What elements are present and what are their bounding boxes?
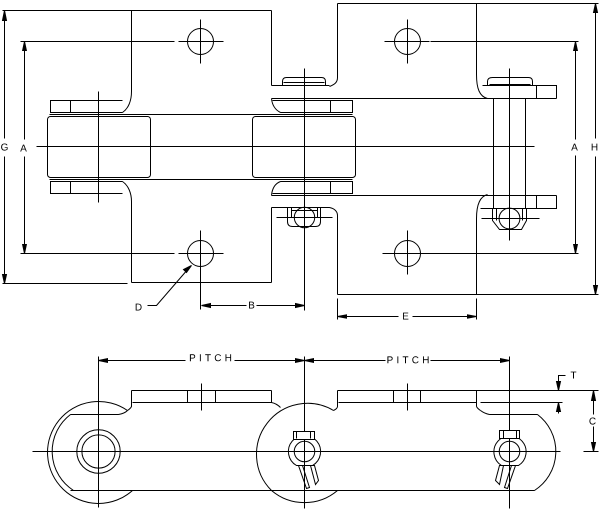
dimension B arrows <box>202 304 305 308</box>
pin2 end crosshair <box>277 217 333 219</box>
nut body pin3 <box>494 436 526 466</box>
pin 2 centerline <box>304 69 306 311</box>
pin link plate bar pin3 top <box>483 86 557 99</box>
link2 right concave fillet to inner edge <box>481 411 490 415</box>
label H <box>592 144 598 151</box>
leader D <box>148 269 189 306</box>
pin2 end circle <box>294 207 314 227</box>
link2 attachment outer arc left end <box>256 403 333 490</box>
pin3 side centerline <box>509 364 511 509</box>
dimension T arrow up <box>557 403 561 414</box>
link1 flat right end vertical <box>271 391 273 403</box>
left attachment plate top edge <box>132 10 272 12</box>
outer link plate band lower bottom edge (pin2) <box>272 207 330 209</box>
roller R1 <box>48 117 151 178</box>
dimension T bracket <box>559 376 566 386</box>
dimension H vertical line <box>595 4 597 295</box>
inner link plate edge line upper <box>50 114 353 116</box>
dimension T extension top <box>477 390 599 392</box>
pin3 end circle <box>499 208 520 229</box>
tab pin2 top divider <box>330 101 332 113</box>
right attachment plate left edge with bend curves <box>330 4 338 87</box>
left attachment plate right edge upper <box>271 11 273 86</box>
tab pin2 top bend curve <box>272 99 281 113</box>
label A left <box>20 145 27 152</box>
bushing circle pin1 <box>82 435 115 468</box>
dimension E arrows <box>338 315 477 318</box>
roller circle pin1 <box>77 430 120 473</box>
hole D bottom-left crosshair <box>179 231 224 310</box>
cotter pin3 leg 1 <box>505 466 516 489</box>
chain centerline horizontal top view <box>37 146 535 148</box>
link2 bend fillet cusp to vertical <box>334 391 338 411</box>
chain bottom edge line <box>71 490 535 492</box>
dimension E line <box>338 316 477 318</box>
right attachment plate top edge with H extension <box>338 3 599 5</box>
label PITCH 2 <box>387 356 428 363</box>
extension line A bottom right <box>431 253 579 255</box>
pin link plate bar pin3 bottom edge <box>481 196 557 209</box>
attachment flange tab lower-left <box>51 182 123 194</box>
pin2 side centerline <box>304 364 306 509</box>
dimension G vertical line <box>4 11 6 284</box>
dimension E extension lines <box>338 299 477 320</box>
extension line G bottom left <box>3 283 128 285</box>
roller R2 <box>253 117 356 178</box>
label PITCH 1 <box>190 354 231 361</box>
flange tab pin2 top <box>273 101 353 113</box>
extension line A bottom left <box>21 253 175 255</box>
dimension B line <box>202 305 305 307</box>
extension line A top right <box>431 41 579 43</box>
outer link plate band top edge (pin2) <box>272 85 330 87</box>
label A right <box>571 144 578 151</box>
castle nut pin2 slots <box>297 432 311 439</box>
dimension T arrow down <box>557 382 561 391</box>
pin head dome pin3 <box>488 78 533 86</box>
tab lower-left divider <box>70 182 72 194</box>
right attachment plate right edge with bend curves <box>477 4 488 99</box>
castle nut pin3 side <box>500 431 520 439</box>
pitch dimension line 1 arrows <box>99 359 305 363</box>
pitch dimension line 2 arrows <box>305 359 510 363</box>
dimension A right vertical line <box>575 42 577 254</box>
pitch dimension tick pin2 <box>304 357 306 364</box>
outer link plate band bottom edge long <box>272 98 557 100</box>
extension line top left (G) <box>3 10 132 12</box>
pin 3 shaft right edge <box>525 99 527 209</box>
link1 right bend fillet to saddle <box>272 403 281 408</box>
pin2 circle side <box>294 441 315 462</box>
side chain horizontal centerline <box>33 451 599 453</box>
link2 right bend fillet to cusp <box>477 407 481 411</box>
extension line A top left <box>21 41 175 43</box>
pin head dome pin2 <box>283 78 326 86</box>
outer link plate band lower edge long (mirror) <box>272 195 557 197</box>
dimension A right arrows <box>574 42 578 254</box>
pin 3 shaft left edge <box>493 99 495 209</box>
label G <box>1 144 8 151</box>
pitch dimension line 1 <box>99 360 305 362</box>
pin 3 centerline <box>509 69 511 241</box>
dimension C line <box>593 391 595 452</box>
label D <box>136 304 142 311</box>
label E <box>403 313 408 320</box>
link1 inner plate arc left end <box>52 415 73 491</box>
bar pin3 bottom divider <box>536 196 538 209</box>
label T <box>571 372 577 379</box>
attachment flange tab upper-left <box>51 101 123 113</box>
hole top-right circle <box>395 29 421 55</box>
link1 bend fillet cusp to vertical <box>128 391 132 411</box>
link1 attachment outer arc left end <box>48 401 133 503</box>
flange tab pin2 bottom <box>273 182 353 194</box>
dimension T extension bottom <box>481 402 563 404</box>
link2 attachment flange upper edge <box>339 402 477 404</box>
dimension H arrows <box>594 4 598 295</box>
left attachment plate left edge with bend curves <box>123 11 132 113</box>
right end inner plate arc <box>535 415 556 491</box>
link2 attachment flat top edge <box>338 390 477 392</box>
pitch dimension line 2 <box>305 360 510 362</box>
castle nut pin2 inner lines <box>292 208 318 218</box>
label C <box>589 418 595 425</box>
inner link plate edge line lower <box>50 179 353 181</box>
dimension G arrows <box>3 11 7 284</box>
pin 1 centerline <box>98 92 100 203</box>
pin1 side centerline <box>98 364 100 508</box>
pitch dimension tick pin1 <box>98 357 100 364</box>
pitch dimension tick pin3 <box>509 357 511 364</box>
tab upper-left divider <box>70 101 72 113</box>
link1 inner plate top edge <box>71 414 119 416</box>
link1 attachment flange upper edge <box>133 402 272 404</box>
pin head dome pin3 inner chord <box>490 84 531 86</box>
hole D top-left crosshair <box>179 20 224 64</box>
hole D bottom-left circle <box>188 241 214 267</box>
hole D top-left circle <box>188 29 214 55</box>
link2 attachment outer arc bottom dip <box>272 491 338 503</box>
link2 bolt hole centerline <box>407 384 409 411</box>
bar pin3 top divider <box>536 86 538 99</box>
label B <box>249 302 254 309</box>
tab pin2 bottom bend curve <box>272 182 281 196</box>
hole bottom-right circle <box>395 241 421 267</box>
link2 bolt hole tick marks <box>394 391 421 403</box>
castle nut pin2 side <box>294 432 315 440</box>
link2 flat right end vertical <box>476 391 478 407</box>
pin head dome pin2 inner chord <box>284 82 325 84</box>
hole bottom-right crosshair <box>383 231 431 275</box>
leader D arrowhead <box>184 266 192 273</box>
pin3 end crosshair <box>482 218 540 220</box>
right attachment plate bottom edge with H extension <box>338 294 599 296</box>
right end inner plate top edge <box>490 414 538 416</box>
castle nut pin2 outline <box>288 208 321 227</box>
hole top-right crosshair <box>385 20 430 64</box>
dimension A left vertical line <box>24 42 26 254</box>
castle nut pin3 outline <box>493 209 527 230</box>
cotter pin2 leg 1 <box>299 466 310 489</box>
cotter pin2 leg 2 <box>311 466 319 485</box>
pin3 circle side <box>499 441 520 462</box>
link1 fillet top edge to cusp <box>119 411 128 415</box>
left attachment plate right edge lower <box>271 208 273 283</box>
dimension C arrows <box>592 391 596 452</box>
link1 bolt hole tick marks <box>188 391 216 403</box>
link1 attachment flat top edge <box>132 390 272 392</box>
tab pin2 bottom divider <box>330 182 332 194</box>
left attachment plate bottom edge <box>132 282 272 284</box>
castle nut pin3 slots <box>504 431 517 439</box>
cotter pin3 leg 2 <box>496 466 504 485</box>
link1 bolt hole centerline <box>201 384 203 411</box>
dimension A left arrows <box>23 42 27 254</box>
nut body pin2 <box>288 435 320 465</box>
castle nut pin3 inner lines <box>497 209 523 221</box>
